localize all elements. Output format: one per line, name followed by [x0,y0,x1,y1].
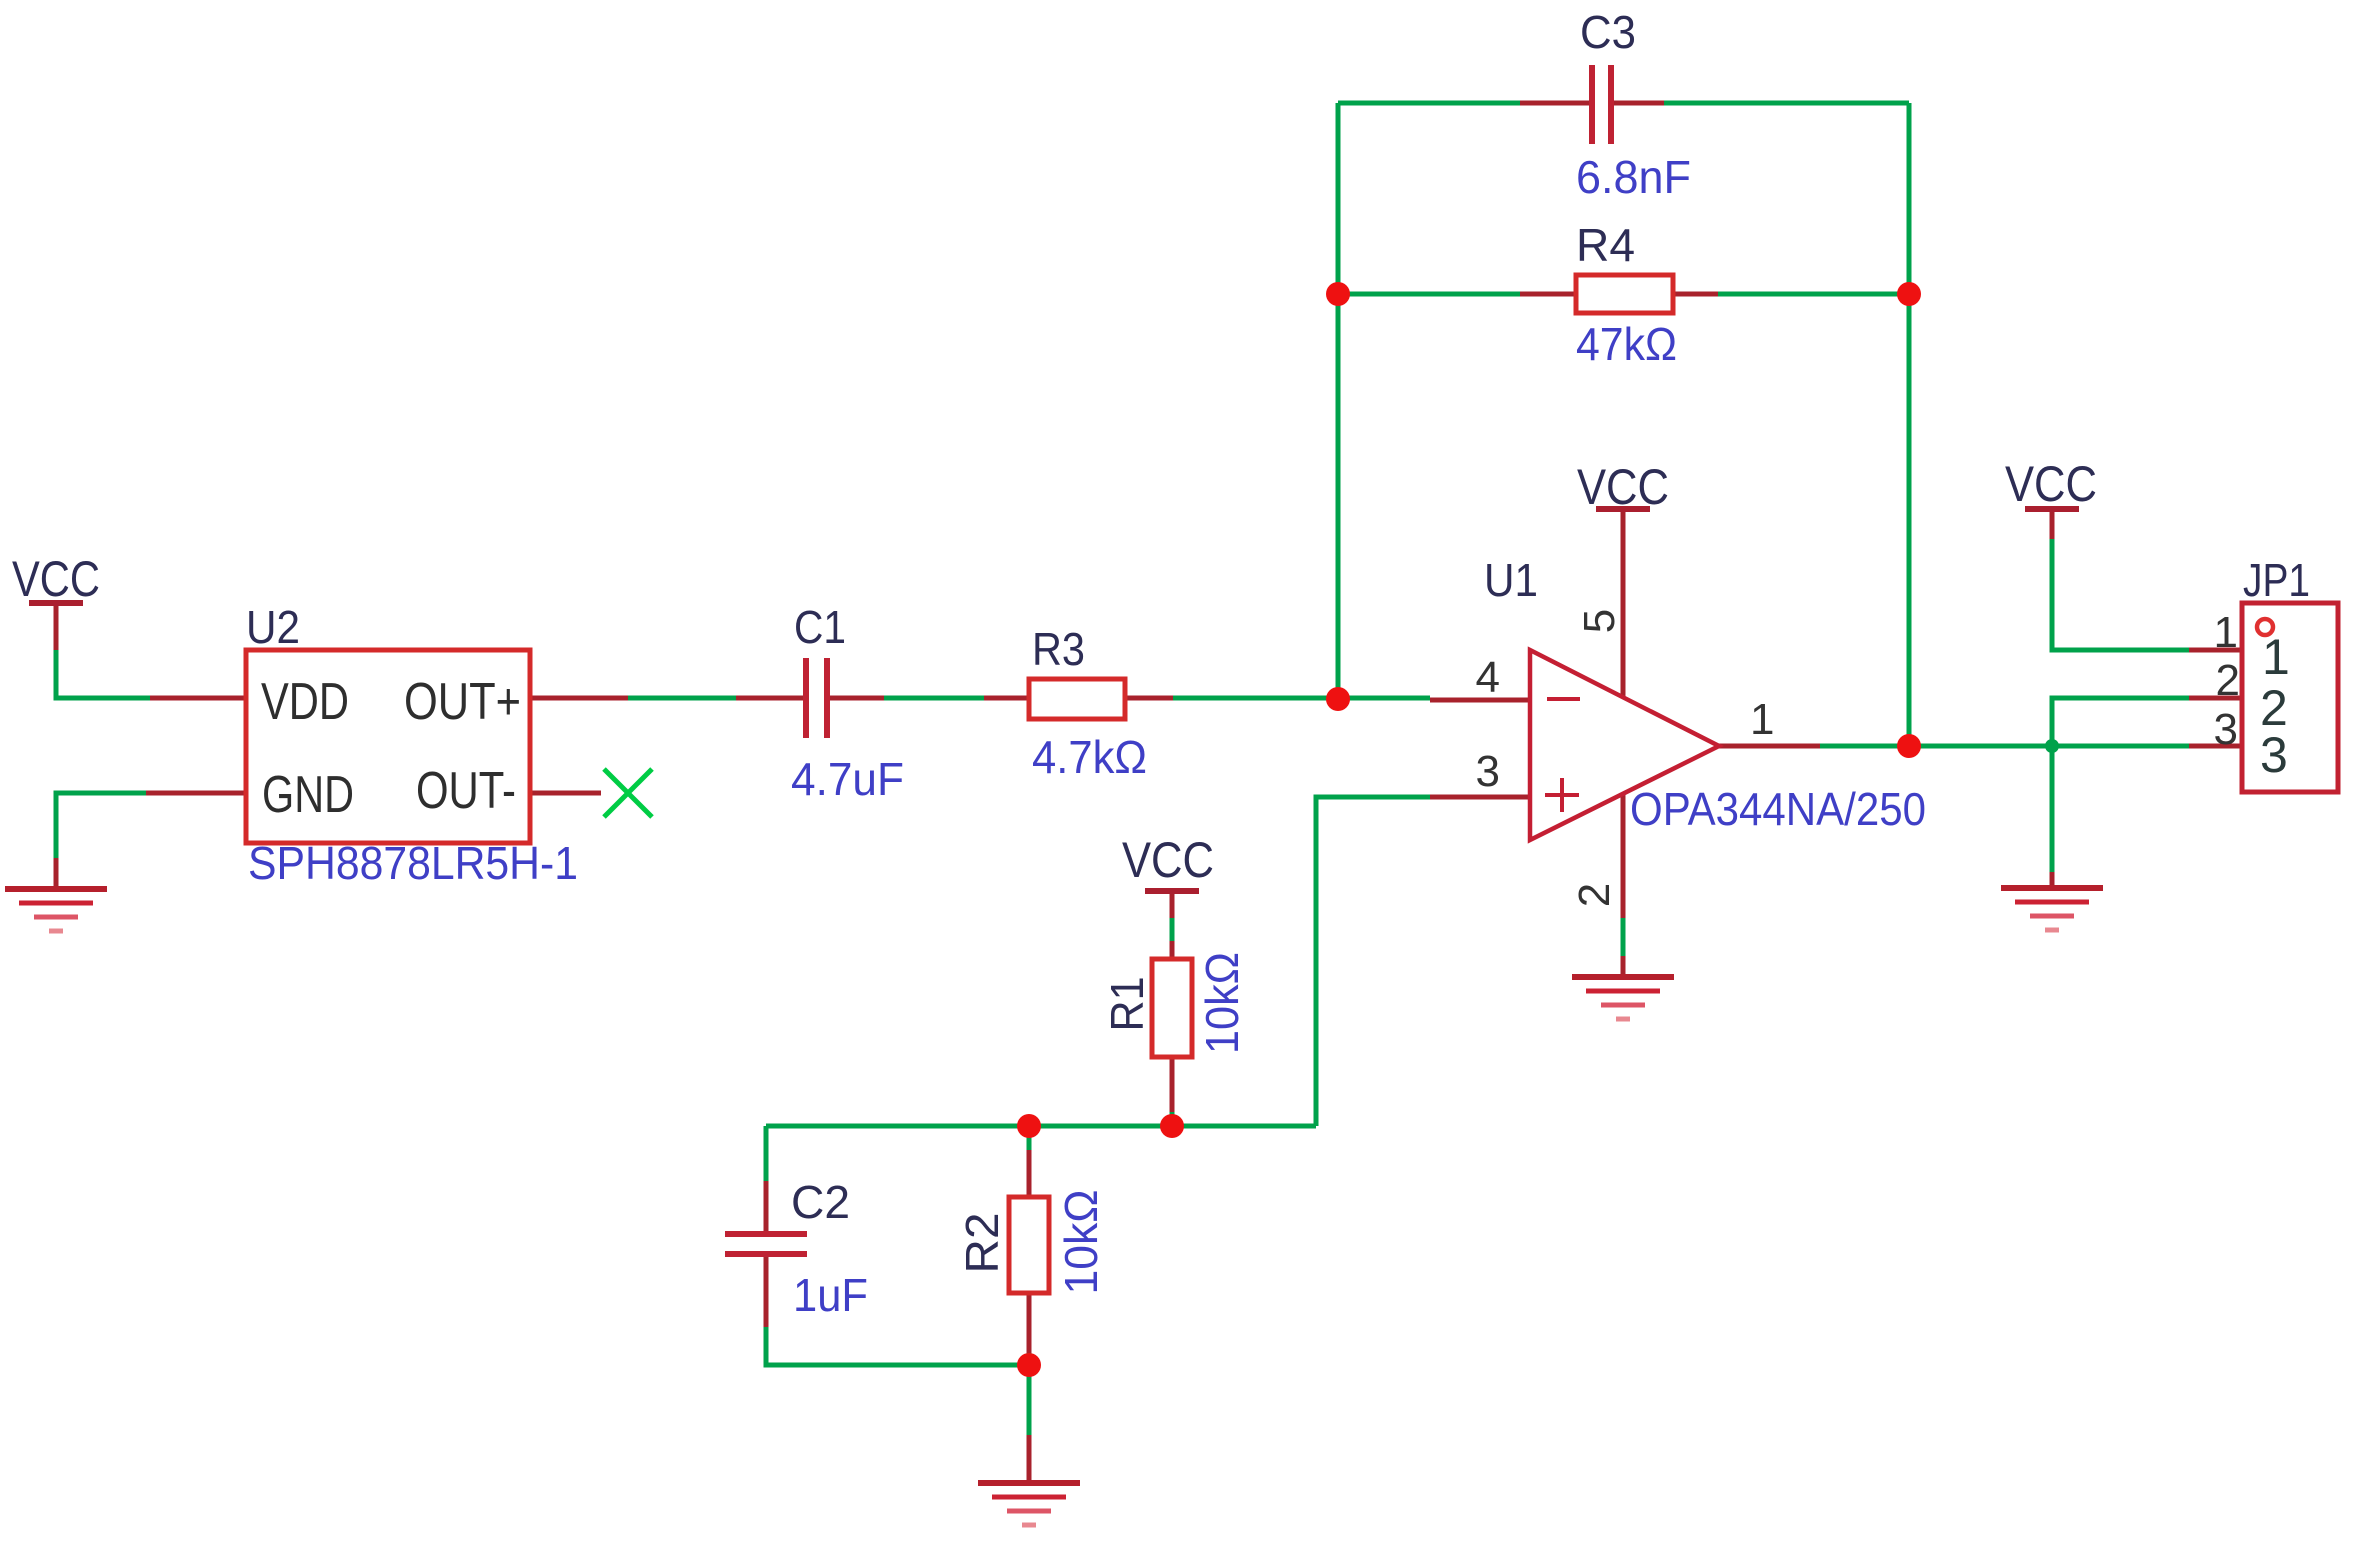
svg-text:OPA344NA/250: OPA344NA/250 [1630,783,1926,835]
svg-text:4: 4 [1476,653,1500,702]
svg-text:47kΩ: 47kΩ [1576,318,1677,370]
svg-text:JP1: JP1 [2243,554,2310,606]
svg-text:SPH8878LR5H-1: SPH8878LR5H-1 [248,837,578,889]
svg-text:4.7uF: 4.7uF [791,753,904,805]
svg-text:3: 3 [2214,705,2238,754]
svg-text:1: 1 [2262,629,2290,685]
svg-text:6.8nF: 6.8nF [1576,151,1691,203]
svg-text:C1: C1 [794,601,846,653]
svg-text:R3: R3 [1032,623,1085,675]
svg-text:1: 1 [1750,695,1774,744]
svg-text:10kΩ: 10kΩ [1055,1190,1107,1295]
svg-text:VCC: VCC [1577,459,1669,515]
svg-text:VCC: VCC [12,551,100,607]
svg-text:R1: R1 [1101,977,1153,1032]
svg-text:3: 3 [1476,747,1500,796]
svg-text:OUT+: OUT+ [404,673,521,731]
svg-text:4.7kΩ: 4.7kΩ [1032,731,1147,783]
svg-text:3: 3 [2260,727,2288,783]
svg-text:GND: GND [262,766,354,824]
svg-text:R4: R4 [1576,219,1635,271]
svg-text:U1: U1 [1484,554,1538,606]
svg-text:2: 2 [1570,883,1619,907]
svg-text:VCC: VCC [2005,456,2097,512]
svg-text:10kΩ: 10kΩ [1196,952,1248,1054]
svg-text:C3: C3 [1580,6,1636,58]
svg-text:OUT-: OUT- [416,762,516,820]
svg-text:2: 2 [2216,656,2240,705]
svg-text:C2: C2 [791,1176,850,1228]
svg-text:VCC: VCC [1122,832,1214,888]
svg-text:U2: U2 [246,601,300,653]
svg-text:1: 1 [2214,608,2238,657]
svg-text:5: 5 [1575,609,1624,633]
svg-text:R2: R2 [956,1213,1008,1274]
svg-text:1uF: 1uF [793,1269,868,1321]
svg-text:VDD: VDD [261,673,349,731]
